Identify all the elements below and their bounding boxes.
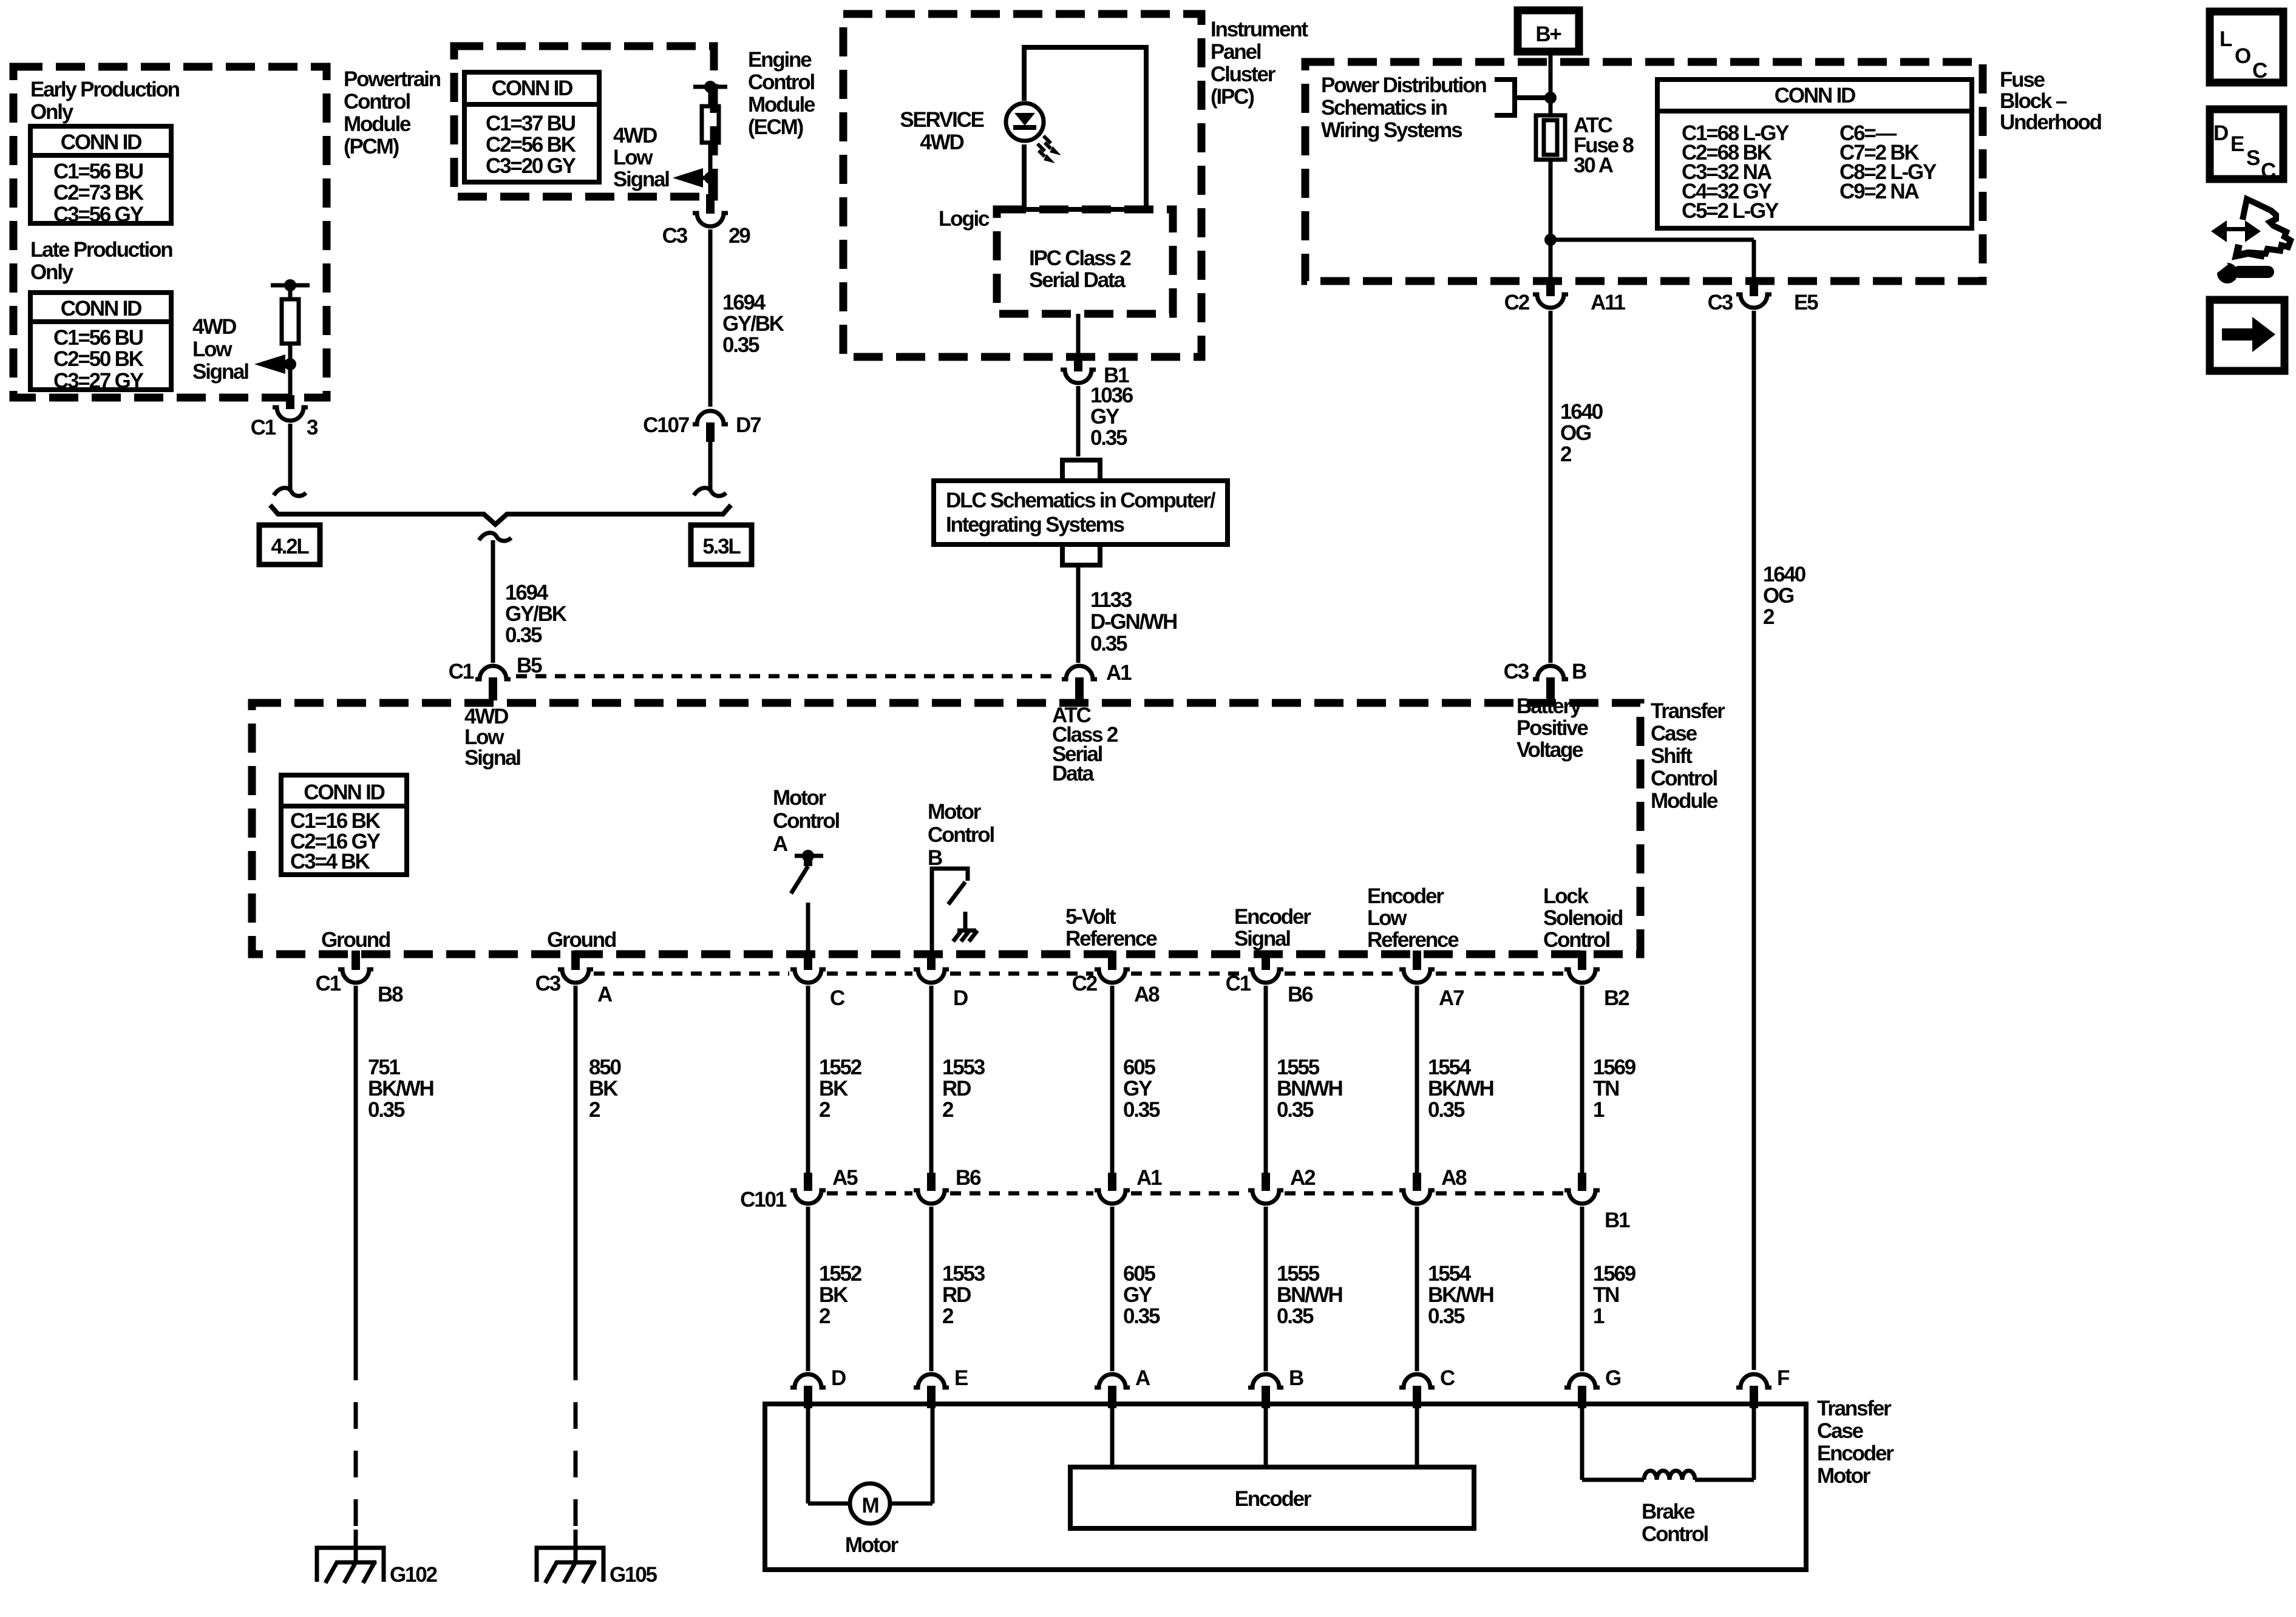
- svg-text:1554: 1554: [1428, 1056, 1472, 1079]
- svg-text:Module: Module: [344, 112, 411, 136]
- connector pin C (encoder motor): [1399, 1374, 1435, 1388]
- DLC schematics box: [934, 481, 1228, 544]
- wire to E5 drop: [1550, 238, 1754, 242]
- svg-text:1555: 1555: [1277, 1262, 1320, 1286]
- svg-text:E5: E5: [1794, 291, 1818, 314]
- svg-text:M: M: [862, 1494, 878, 1517]
- connector pin E (encoder motor): [914, 1374, 949, 1388]
- svg-text:Motor: Motor: [845, 1533, 899, 1557]
- svg-text:1553: 1553: [942, 1262, 985, 1286]
- svg-text:Block –: Block –: [2000, 89, 2067, 113]
- ground wire: [574, 986, 578, 1354]
- svg-text:C101: C101: [740, 1188, 787, 1212]
- svg-text:850: 850: [589, 1056, 622, 1079]
- svg-text:0.35: 0.35: [722, 333, 759, 357]
- svg-text:E: E: [2230, 132, 2244, 156]
- svg-text:Motor: Motor: [1817, 1464, 1871, 1488]
- svg-text:GY/BK: GY/BK: [722, 312, 784, 336]
- svg-text:C1: C1: [316, 972, 341, 995]
- dotted connector line (module bottom row): [594, 972, 789, 976]
- svg-text:Low: Low: [613, 146, 653, 169]
- svg-text:Powertrain: Powertrain: [344, 67, 441, 91]
- svg-text:Control: Control: [1651, 767, 1717, 790]
- wire: [1580, 986, 1584, 1173]
- svg-text:Serial Data: Serial Data: [1029, 268, 1126, 292]
- svg-text:0.35: 0.35: [1428, 1304, 1465, 1328]
- svg-text:Wiring Systems: Wiring Systems: [1321, 118, 1462, 142]
- svg-text:Reference: Reference: [1367, 928, 1459, 952]
- svg-text:Module: Module: [1651, 789, 1718, 813]
- diagnostic icon double arrow: [2222, 227, 2250, 231]
- bracket (power distribution): [1495, 80, 1550, 115]
- transfer case encoder motor box: [765, 1404, 1806, 1570]
- svg-text:RD: RD: [942, 1077, 971, 1100]
- svg-text:SERVICE: SERVICE: [900, 108, 983, 132]
- svg-text:Early Production: Early Production: [30, 78, 180, 101]
- svg-text:BK/WH: BK/WH: [1428, 1077, 1493, 1100]
- svg-text:BK/WH: BK/WH: [368, 1077, 433, 1100]
- svg-text:0.35: 0.35: [505, 623, 542, 647]
- svg-text:BK: BK: [819, 1077, 848, 1100]
- wire: [929, 986, 934, 1173]
- svg-text:1552: 1552: [819, 1056, 862, 1079]
- svg-text:1133: 1133: [1090, 588, 1132, 612]
- svg-text:C2=56 BK: C2=56 BK: [486, 133, 576, 157]
- svg-text:A5: A5: [832, 1166, 858, 1190]
- svg-text:C3: C3: [1504, 660, 1529, 683]
- connector pin C (module bottom): [804, 951, 812, 970]
- svg-text:CONN ID: CONN ID: [492, 76, 572, 100]
- wire 1133 D-GN/WH: [1076, 565, 1081, 663]
- svg-text:A1: A1: [1106, 661, 1132, 685]
- diagnostic icon jaw stroke: [2237, 245, 2264, 256]
- connector pin D (module bottom): [927, 951, 936, 970]
- ground G105: [537, 1548, 603, 1582]
- svg-text:Integrating Systems: Integrating Systems: [946, 513, 1124, 537]
- chassis ground (motor control B): [963, 912, 968, 931]
- wire: [806, 1207, 810, 1371]
- svg-text:Brake: Brake: [1642, 1500, 1695, 1524]
- svg-text:IPC Class 2: IPC Class 2: [1029, 246, 1131, 270]
- svg-text:C1=56 BU: C1=56 BU: [53, 326, 143, 350]
- svg-text:B: B: [1289, 1366, 1303, 1390]
- encoder wires: [1110, 1408, 1115, 1467]
- 4WD low signal arrow (PCM): [254, 354, 285, 374]
- fuse block underhood dashed box: [1305, 62, 1983, 281]
- wire: [1264, 986, 1268, 1173]
- svg-text:1554: 1554: [1428, 1262, 1472, 1286]
- svg-text:Motor: Motor: [773, 786, 827, 810]
- DESC icon box: [2210, 109, 2283, 179]
- svg-text:TN: TN: [1593, 1077, 1618, 1100]
- junction dot (PCM top): [284, 279, 296, 291]
- connector B1 (IPC): [1074, 354, 1082, 371]
- wire from PCM C1-3 down to splice: [288, 424, 293, 489]
- svg-text:Case: Case: [1651, 722, 1697, 745]
- motor loop wires: [806, 1408, 810, 1503]
- in-line connector C101 pin A2: [1262, 1173, 1270, 1191]
- svg-text:L: L: [2220, 27, 2232, 51]
- svg-text:G: G: [1605, 1366, 1621, 1390]
- svg-text:Signal: Signal: [192, 360, 248, 384]
- svg-text:OG: OG: [1763, 584, 1794, 608]
- svg-text:A8: A8: [1441, 1166, 1467, 1190]
- svg-text:C9=2 NA: C9=2 NA: [1839, 180, 1919, 203]
- wire: [929, 1207, 934, 1371]
- connector C3 pin E5 (fuse block): [1750, 279, 1758, 296]
- svg-text:0.35: 0.35: [1277, 1304, 1314, 1328]
- wire: [288, 344, 293, 395]
- motor control A switch: [795, 854, 823, 858]
- connector pin A8 (module bottom): [1108, 951, 1116, 970]
- motor M circle: [850, 1483, 890, 1524]
- svg-text:30 A: 30 A: [1574, 154, 1614, 177]
- wire 1694 GY/BK from ECM: [708, 229, 713, 407]
- svg-text:B2: B2: [1604, 986, 1629, 1010]
- junction dot (PCM signal): [284, 358, 296, 370]
- svg-text:C3: C3: [535, 972, 561, 995]
- svg-text:Cluster: Cluster: [1211, 63, 1276, 86]
- dotted connector line C101 row: [827, 1192, 912, 1196]
- svg-text:C2: C2: [1504, 291, 1530, 314]
- resistor (PCM 4WD low pull-up): [282, 299, 299, 344]
- svg-text:C: C: [830, 986, 845, 1010]
- bracket above DLC box: [1062, 460, 1100, 481]
- svg-text:A2: A2: [1290, 1166, 1316, 1190]
- svg-text:Control: Control: [344, 90, 410, 114]
- bracket below DLC box: [1062, 544, 1100, 565]
- svg-text:Logic: Logic: [939, 207, 990, 231]
- splice curl below bus: [479, 533, 511, 541]
- CONN ID table (early production PCM): [30, 126, 171, 223]
- wire 1036 GY: [1076, 386, 1081, 456]
- svg-text:F: F: [1777, 1366, 1790, 1390]
- svg-text:C1: C1: [251, 416, 276, 439]
- svg-text:B8: B8: [378, 983, 403, 1006]
- svg-text:2: 2: [1560, 442, 1572, 466]
- ground G102: [317, 1548, 384, 1582]
- svg-text:1036: 1036: [1090, 384, 1133, 407]
- svg-text:D: D: [2213, 121, 2228, 145]
- svg-text:Module: Module: [748, 93, 815, 117]
- wire: [1264, 1207, 1268, 1371]
- junction dot: [1544, 92, 1557, 104]
- svg-text:Power Distribution: Power Distribution: [1321, 73, 1486, 97]
- svg-text:BK: BK: [589, 1077, 618, 1100]
- IPC module dashed box: [843, 14, 1201, 357]
- CONN ID table (ECM): [464, 72, 599, 182]
- pull-up terminal bar (PCM): [271, 283, 310, 288]
- svg-text:C: C: [1440, 1366, 1455, 1390]
- CONN ID table (late production PCM): [30, 293, 171, 390]
- svg-text:C3: C3: [662, 224, 688, 248]
- connector pin G (encoder motor): [1564, 1374, 1600, 1388]
- svg-text:B6: B6: [1288, 983, 1313, 1006]
- engine option box 5.3L: [691, 525, 752, 564]
- svg-text:A11: A11: [1591, 291, 1625, 314]
- svg-text:OG: OG: [1560, 421, 1591, 445]
- svg-text:C1: C1: [449, 660, 474, 683]
- svg-text:C3=20 GY: C3=20 GY: [486, 154, 576, 178]
- svg-text:(ECM): (ECM): [748, 115, 803, 139]
- LED arrow bolt 2: [1038, 144, 1045, 157]
- wire from B+: [1549, 53, 1553, 115]
- wire: [1580, 1207, 1584, 1371]
- svg-text:4WD: 4WD: [920, 131, 963, 154]
- svg-text:0.35: 0.35: [1090, 632, 1127, 656]
- svg-text:GY: GY: [1123, 1283, 1152, 1307]
- svg-text:B: B: [928, 846, 942, 870]
- svg-text:Control: Control: [773, 809, 839, 833]
- CONN ID table (fuse block underhood): [1657, 80, 1972, 228]
- svg-text:BN/WH: BN/WH: [1277, 1077, 1342, 1100]
- svg-text:BK: BK: [819, 1283, 848, 1307]
- svg-text:2: 2: [942, 1098, 954, 1122]
- connector pin D (encoder motor): [790, 1374, 826, 1388]
- svg-text:0.35: 0.35: [1123, 1098, 1160, 1122]
- engine option box 4.2L: [259, 525, 320, 564]
- svg-text:2: 2: [1763, 605, 1775, 629]
- svg-text:Voltage: Voltage: [1517, 738, 1583, 762]
- junction dot (ECM top): [704, 81, 716, 93]
- svg-text:(IPC): (IPC): [1211, 85, 1254, 109]
- ground wire: [354, 986, 358, 1354]
- svg-text:C3=56 GY: C3=56 GY: [53, 203, 144, 226]
- connector pin A7 (module bottom): [1413, 951, 1421, 970]
- svg-text:1640: 1640: [1560, 400, 1603, 424]
- IPC Class 2 Serial Data dashed box: [997, 209, 1173, 314]
- PCM module dashed box: [13, 67, 327, 398]
- in-line connector C107 pin D7: [693, 411, 728, 424]
- wire from logic to B1: [1076, 314, 1081, 354]
- svg-text:CONN ID: CONN ID: [1775, 84, 1855, 107]
- svg-text:TN: TN: [1593, 1283, 1618, 1307]
- svg-text:C3=27 GY: C3=27 GY: [53, 369, 144, 393]
- ECM module dashed box: [454, 46, 714, 197]
- svg-text:A1: A1: [1136, 1166, 1162, 1190]
- battery feed B+ box: [1518, 10, 1579, 52]
- svg-text:A: A: [1135, 1366, 1150, 1390]
- svg-text:1694: 1694: [505, 581, 549, 605]
- connector C1 pin 3 (PCM): [286, 395, 294, 409]
- svg-text:CONN ID: CONN ID: [61, 297, 141, 320]
- svg-text:0.35: 0.35: [368, 1098, 405, 1122]
- svg-text:3: 3: [307, 416, 318, 439]
- wire 1694 GY/BK to module: [491, 540, 495, 663]
- svg-text:GY: GY: [1123, 1077, 1152, 1100]
- svg-text:Underhood: Underhood: [2000, 110, 2102, 134]
- svg-text:E: E: [954, 1366, 968, 1390]
- svg-text:1694: 1694: [722, 291, 766, 314]
- junction dot (ECM signal): [704, 172, 716, 184]
- dotted class2 line B5 to A1: [516, 674, 1060, 679]
- motor control B switch: [932, 869, 968, 951]
- svg-text:Signal: Signal: [464, 746, 520, 770]
- svg-text:Transfer: Transfer: [1651, 699, 1725, 723]
- connector pin A (module bottom): [571, 951, 580, 970]
- svg-text:B: B: [1572, 660, 1586, 683]
- svg-text:Low: Low: [1367, 906, 1407, 930]
- wire: [708, 87, 713, 106]
- svg-text:Positive: Positive: [1517, 716, 1588, 740]
- wire: [1415, 986, 1419, 1173]
- svg-text:O: O: [2235, 44, 2250, 68]
- svg-text:4WD: 4WD: [192, 315, 236, 339]
- svg-text:1552: 1552: [819, 1262, 862, 1286]
- svg-text:Solenoid: Solenoid: [1543, 906, 1623, 930]
- svg-text:Transfer: Transfer: [1817, 1397, 1892, 1420]
- svg-text:4.2L: 4.2L: [271, 535, 309, 558]
- svg-text:5.3L: 5.3L: [702, 535, 741, 558]
- svg-text:C: C: [2252, 59, 2267, 83]
- wire: [288, 285, 293, 299]
- svg-text:C1=37 BU: C1=37 BU: [486, 112, 576, 135]
- svg-text:29: 29: [729, 224, 750, 248]
- svg-text:GY/BK: GY/BK: [505, 602, 567, 626]
- brake control wires: [1580, 1408, 1584, 1480]
- svg-text:751: 751: [368, 1056, 401, 1079]
- svg-text:2: 2: [819, 1304, 830, 1328]
- wire 1640 OG (E5 branch, long): [1752, 311, 1756, 1370]
- svg-text:(PCM): (PCM): [344, 135, 399, 158]
- connector A1 (shift control module): [1062, 666, 1097, 679]
- connector pin A (encoder motor): [1095, 1374, 1130, 1388]
- svg-text:Case: Case: [1817, 1419, 1864, 1443]
- svg-text:Encoder: Encoder: [1817, 1442, 1894, 1465]
- svg-text:1555: 1555: [1277, 1056, 1320, 1079]
- LED arrow bolt 1: [1044, 136, 1051, 149]
- svg-text:G105: G105: [610, 1563, 657, 1587]
- connector pin F (encoder motor): [1736, 1374, 1771, 1388]
- svg-text:RD: RD: [942, 1283, 971, 1307]
- svg-text:B+: B+: [1535, 22, 1561, 46]
- svg-text:Lock: Lock: [1543, 884, 1589, 908]
- fuse ATC Fuse 8 30 A: [1536, 115, 1565, 160]
- svg-text:G102: G102: [390, 1563, 438, 1587]
- svg-text:Control: Control: [748, 70, 814, 94]
- svg-text:C2=73 BK: C2=73 BK: [53, 181, 144, 205]
- svg-text:Reference: Reference: [1065, 927, 1157, 951]
- svg-text:C107: C107: [643, 413, 689, 437]
- connector pin B8 (module bottom): [352, 951, 360, 970]
- svg-text:B6: B6: [956, 1166, 981, 1190]
- LED diode bar: [1013, 125, 1036, 130]
- forward arrow icon box: [2210, 300, 2284, 371]
- svg-text:C5=2 L-GY: C5=2 L-GY: [1682, 199, 1779, 223]
- svg-text:Schematics in: Schematics in: [1321, 96, 1447, 120]
- svg-text:Engine: Engine: [748, 48, 812, 72]
- 4WD low signal arrow (ECM): [673, 168, 703, 188]
- wire motor control A: [806, 903, 810, 951]
- wire: [708, 143, 713, 194]
- LOC icon box: [2210, 12, 2283, 83]
- junction dot: [1544, 234, 1557, 246]
- svg-text:Encoder: Encoder: [1367, 884, 1444, 908]
- svg-text:5-Volt: 5-Volt: [1065, 905, 1116, 929]
- svg-text:B1: B1: [1605, 1209, 1630, 1232]
- svg-text:Panel: Panel: [1211, 40, 1261, 64]
- svg-text:1640: 1640: [1763, 563, 1806, 586]
- svg-text:Battery: Battery: [1517, 694, 1582, 718]
- CONN ID table (shift control module): [281, 775, 407, 875]
- svg-text:2: 2: [819, 1098, 830, 1122]
- svg-text:0.35: 0.35: [1090, 426, 1127, 450]
- svg-text:Motor: Motor: [928, 800, 982, 824]
- wire: [1415, 1207, 1419, 1371]
- wire below fuse: [1549, 160, 1553, 279]
- svg-text:Encoder: Encoder: [1235, 1487, 1312, 1511]
- svg-text:GY: GY: [1090, 405, 1119, 429]
- svg-text:0.35: 0.35: [1277, 1098, 1314, 1122]
- connector C3 pin B (battery positive, module): [1533, 666, 1568, 679]
- in-line connector C101 pin B1: [1578, 1173, 1586, 1191]
- connector C2 pin A11 (fuse block): [1546, 279, 1555, 296]
- svg-text:Only: Only: [30, 260, 74, 284]
- svg-text:2: 2: [589, 1098, 600, 1122]
- connector C1 pin B5 (shift control module): [475, 666, 511, 679]
- svg-text:0.35: 0.35: [1428, 1098, 1465, 1122]
- svg-text:Instrument: Instrument: [1211, 18, 1308, 41]
- svg-text:Ground: Ground: [547, 928, 616, 952]
- svg-text:CONN ID: CONN ID: [61, 131, 141, 154]
- svg-text:CONN ID: CONN ID: [304, 781, 384, 804]
- svg-text:1: 1: [1593, 1304, 1605, 1328]
- svg-text:Shift: Shift: [1651, 744, 1693, 768]
- svg-text:D-GN/WH: D-GN/WH: [1090, 610, 1177, 634]
- wire from C107 to splice: [708, 442, 713, 489]
- connector C3 pin 29 (ECM): [706, 194, 715, 214]
- svg-text:1: 1: [1593, 1098, 1605, 1122]
- svg-text:1569: 1569: [1593, 1056, 1636, 1079]
- svg-text:Data: Data: [1052, 762, 1095, 785]
- svg-text:C2=50 BK: C2=50 BK: [53, 347, 144, 371]
- svg-text:Ground: Ground: [321, 928, 390, 952]
- IPC lamp circuit rectangle: [1024, 47, 1146, 209]
- svg-text:BK/WH: BK/WH: [1428, 1283, 1493, 1307]
- svg-text:Control: Control: [1642, 1522, 1708, 1546]
- svg-text:Signal: Signal: [613, 168, 669, 191]
- LED diode triangle: [1014, 113, 1035, 126]
- wire: [1110, 1207, 1115, 1371]
- svg-text:C3: C3: [1708, 291, 1733, 314]
- svg-text:Signal: Signal: [1234, 927, 1290, 951]
- diagnostic icon wrench: [2217, 263, 2238, 283]
- svg-text:C1=56 BU: C1=56 BU: [53, 160, 143, 183]
- svg-text:A7: A7: [1439, 986, 1464, 1010]
- svg-text:C: C: [2261, 159, 2276, 183]
- svg-text:2: 2: [942, 1304, 954, 1328]
- svg-text:Encoder: Encoder: [1234, 905, 1311, 929]
- in-line connector C101 pin A8: [1413, 1173, 1421, 1191]
- svg-text:D7: D7: [736, 413, 761, 437]
- svg-text:Fuse: Fuse: [2000, 68, 2045, 92]
- svg-text:605: 605: [1123, 1262, 1156, 1286]
- in-line connector C101 pin A5: [804, 1173, 812, 1191]
- svg-text:C3=4 BK: C3=4 BK: [290, 850, 370, 873]
- encoder box: [1070, 1467, 1474, 1528]
- splice bus wire: [270, 505, 731, 524]
- connector pin B6 (module bottom): [1262, 951, 1270, 970]
- svg-text:B5: B5: [517, 654, 542, 677]
- svg-text:4WD: 4WD: [613, 124, 657, 147]
- svg-text:Low: Low: [192, 337, 233, 361]
- svg-text:1553: 1553: [942, 1056, 985, 1079]
- svg-text:Late Production: Late Production: [30, 238, 172, 262]
- svg-text:Control: Control: [1543, 928, 1609, 952]
- pull-up terminal bar (ECM): [693, 85, 727, 89]
- svg-text:Control: Control: [928, 823, 994, 847]
- connector pin B (encoder motor): [1248, 1374, 1283, 1388]
